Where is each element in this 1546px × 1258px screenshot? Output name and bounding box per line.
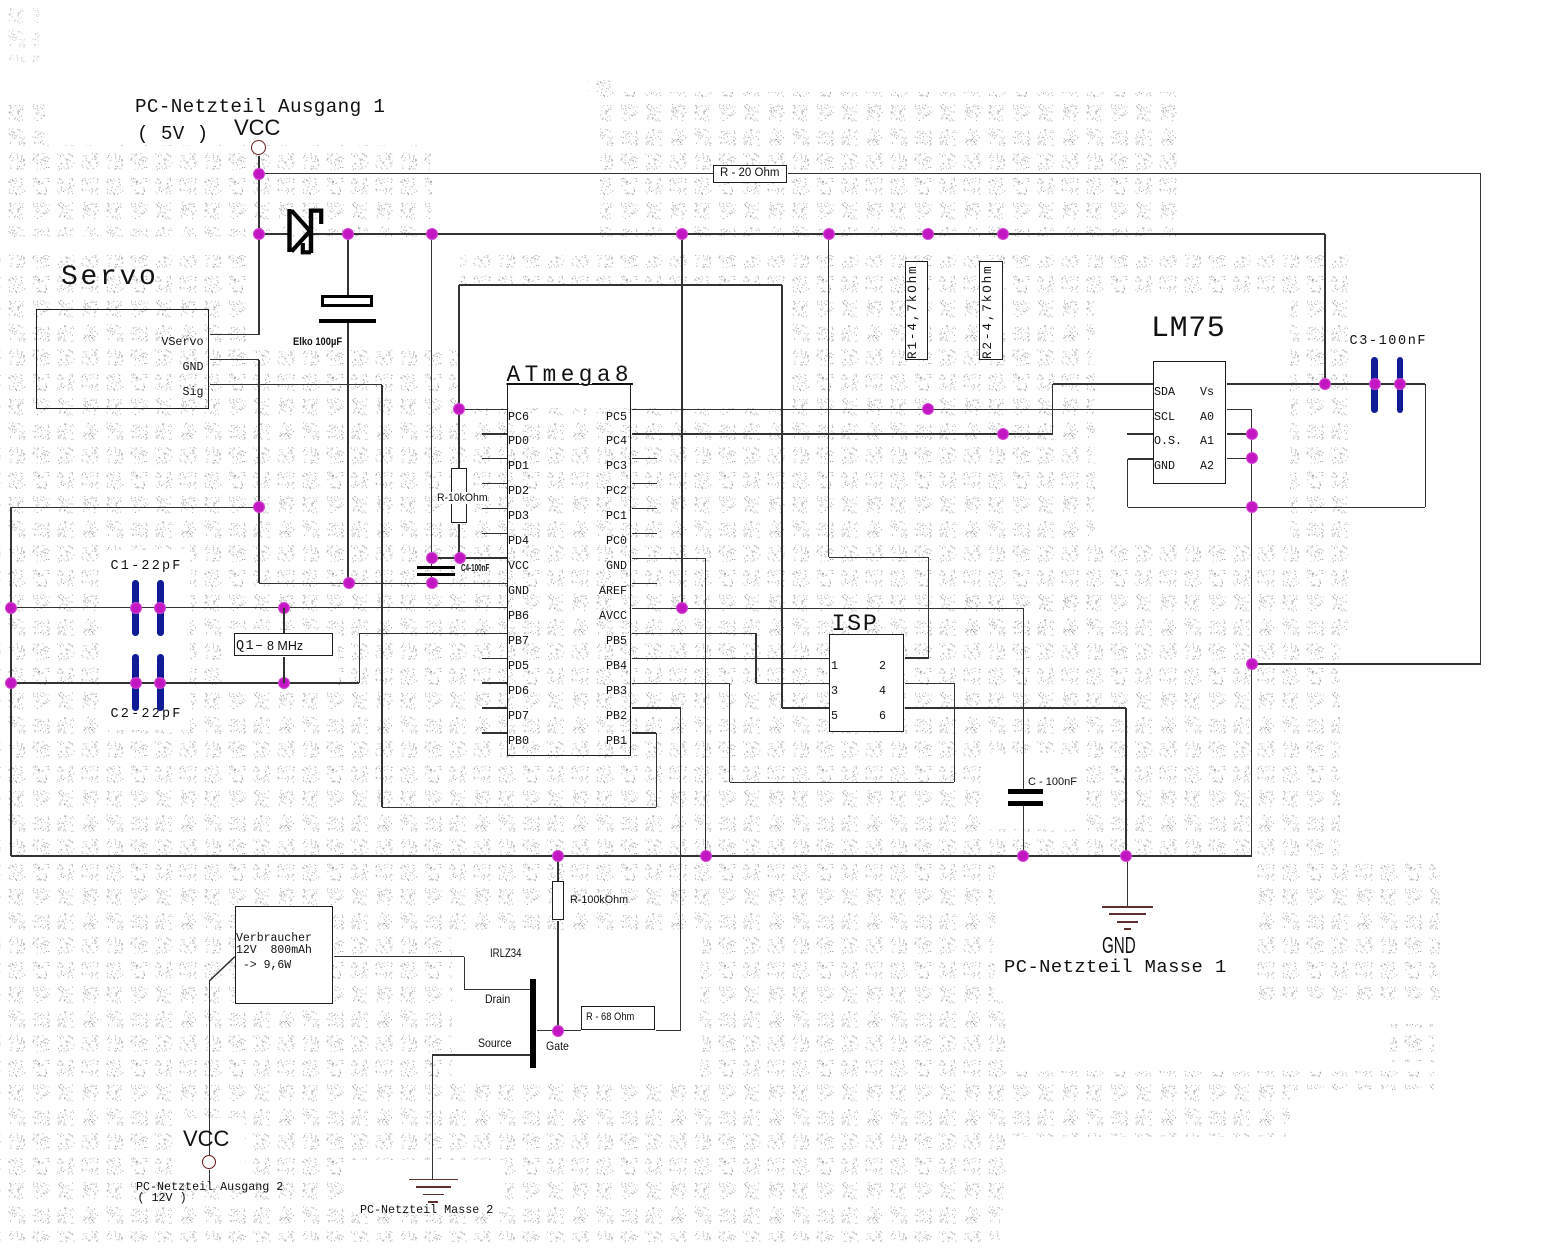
connector ISP bbox=[829, 634, 904, 733]
junction bbox=[426, 552, 438, 564]
junction bbox=[1319, 378, 1331, 390]
wire R-100k bottom lead bbox=[557, 921, 558, 1031]
ground GND PC-Netzteil Masse 2 bbox=[409, 1179, 458, 1181]
junction bbox=[454, 552, 466, 564]
resistor R-10kOhm bbox=[451, 468, 467, 523]
wire VCC to ISP pin2 top bbox=[829, 557, 929, 558]
pin stub ATmega8 right bbox=[632, 458, 658, 459]
junction bbox=[1017, 850, 1029, 862]
capacitor C-100nF bbox=[1008, 789, 1042, 794]
pin stub ATmega8 left bbox=[482, 707, 507, 708]
junction bbox=[154, 677, 166, 689]
junction bbox=[130, 677, 142, 689]
wire VCC terminal drop bbox=[258, 156, 259, 335]
wire PB3 drop bbox=[729, 683, 730, 782]
wire left GND drop bbox=[10, 507, 11, 856]
junction bbox=[1120, 850, 1132, 862]
wire SDA PC4 run bbox=[632, 433, 1053, 434]
wire Elko top lead bbox=[347, 234, 348, 295]
junction bbox=[453, 403, 465, 415]
junction bbox=[700, 850, 712, 862]
wire R-68 to riser bbox=[656, 1030, 681, 1031]
wire ATmega GND drop bbox=[705, 558, 706, 856]
resistor R1 4,7kOhm bbox=[905, 261, 928, 360]
wire PB3 bbox=[632, 683, 730, 684]
pin stub ATmega8 right bbox=[632, 583, 658, 584]
wire RESET top run bbox=[459, 284, 782, 285]
wire R-100k top lead bbox=[557, 856, 558, 881]
wire MOSI riser bbox=[954, 683, 955, 782]
pin stub ATmega8 left bbox=[482, 682, 507, 683]
resistor R2 4,7kOhm bbox=[979, 261, 1004, 360]
wire ISP pin4 lead bbox=[905, 683, 955, 684]
junction bbox=[278, 677, 290, 689]
pin stub ATmega8 left bbox=[482, 483, 507, 484]
pin stub ATmega8 left bbox=[482, 458, 507, 459]
wire AVCC row bbox=[632, 608, 1024, 609]
wire source drop to GND2 bbox=[432, 1055, 433, 1179]
junction bbox=[130, 602, 142, 614]
pin stub ATmega8 left bbox=[482, 533, 507, 534]
ground GND PC-Netzteil Masse 1 bbox=[1102, 906, 1153, 908]
wire Sig bottom run bbox=[382, 807, 656, 808]
wire ISP pin5 lead bbox=[782, 707, 830, 708]
junction bbox=[426, 577, 438, 589]
junction bbox=[997, 428, 1009, 440]
wire MOSI low run bbox=[730, 782, 955, 783]
wire R-10k top lead bbox=[458, 409, 459, 468]
wire PB4 to ISP pin1 bbox=[632, 658, 830, 659]
junction bbox=[1246, 501, 1258, 513]
wire VCC to ISP pin2 run bbox=[828, 234, 829, 557]
wire LM75 A2 lead bbox=[1227, 458, 1252, 459]
wire Vs C3 row bbox=[1227, 383, 1425, 384]
resistor R-100kOhm bbox=[552, 881, 564, 921]
crystal Q1 8MHz bbox=[234, 633, 333, 656]
junction bbox=[253, 501, 265, 513]
wire main GND bus bbox=[11, 855, 1252, 856]
wire source bbox=[432, 1054, 530, 1055]
wire ATmega GND right bbox=[632, 558, 706, 559]
wire VServo bbox=[210, 334, 259, 335]
junction bbox=[278, 602, 290, 614]
pin stub ATmega8 right bbox=[632, 483, 658, 484]
wire PB2 drop to R-68 bbox=[680, 708, 681, 1031]
wire Servo GND bbox=[210, 359, 259, 360]
capacitor C4-100nF bbox=[417, 566, 455, 570]
pin stub ATmega8 left bbox=[482, 508, 507, 509]
wire ISP pin3 lead bbox=[756, 683, 830, 684]
wire Servo GND drop bbox=[258, 360, 259, 584]
wire PB1 bbox=[632, 732, 657, 733]
IC U2 LM75 bbox=[1153, 361, 1226, 485]
wire VCC2 riser bbox=[209, 981, 210, 1155]
resistor R-68 Ohm bbox=[581, 1006, 655, 1030]
wire GND link row bbox=[11, 507, 259, 508]
junction bbox=[154, 602, 166, 614]
wire ISP pin6 drop bbox=[1125, 708, 1126, 856]
wire crystal bottom stub bbox=[283, 657, 284, 683]
transistor Q2 IRLZ34 bbox=[530, 979, 537, 1068]
wire RESET drop to ISP bbox=[781, 285, 782, 708]
wire crystal bottom row bbox=[11, 682, 359, 683]
wire ISP pin2 drop bbox=[928, 557, 929, 658]
wire PC6 bbox=[459, 409, 507, 410]
wire C3 return riser bbox=[1425, 384, 1426, 507]
wire LM75 GND run bbox=[1128, 507, 1426, 508]
wire Sig drop bbox=[381, 385, 382, 808]
connector Servo bbox=[36, 309, 209, 409]
wire diode anode feed bbox=[259, 233, 289, 234]
junction bbox=[676, 228, 688, 240]
wire drain jog bbox=[464, 957, 465, 990]
resistor R-20 Ohm bbox=[713, 165, 788, 184]
wire ATmega GND row bbox=[259, 583, 507, 584]
wire C-100nF bottom lead bbox=[1023, 806, 1024, 856]
wire R-20 to right edge bbox=[788, 173, 1481, 174]
junction bbox=[922, 403, 934, 415]
wire LM75 GND jog bbox=[1127, 459, 1128, 507]
wire C4 bottom stub bbox=[431, 576, 432, 583]
wire VCC2 terminal stub bbox=[209, 1170, 210, 1184]
wire PB5 jog bbox=[755, 633, 756, 683]
junction bbox=[823, 228, 835, 240]
wire AVCC riser to rail bbox=[681, 234, 682, 609]
wire LM75 GND lead bbox=[1128, 458, 1153, 459]
wire SDA into LM75 bbox=[1053, 383, 1153, 384]
wire O.S. stub bbox=[1127, 433, 1153, 434]
pin stub ATmega8 left bbox=[482, 658, 507, 659]
wire Sig bbox=[210, 384, 382, 385]
capacitor C2-22pF bbox=[111, 707, 183, 723]
wire GND1 stub bbox=[1127, 856, 1128, 906]
power VCC terminal PC-Netzteil Ausgang 2 12V bbox=[202, 1155, 216, 1169]
junction bbox=[253, 168, 265, 180]
junction bbox=[1369, 378, 1381, 390]
capacitor C1-22pF bbox=[111, 559, 183, 575]
junction bbox=[552, 1025, 564, 1037]
pin stub ATmega8 left bbox=[482, 433, 507, 434]
junction bbox=[997, 228, 1009, 240]
junction bbox=[1394, 378, 1406, 390]
junction bbox=[676, 602, 688, 614]
wire Sig riser to PB1 bbox=[656, 733, 657, 807]
IC U1 ATmega8 bbox=[507, 384, 631, 756]
junction bbox=[253, 228, 265, 240]
wire ISP pin2 lead bbox=[905, 657, 929, 658]
pin stub ATmega8 right bbox=[632, 508, 658, 509]
wire VCC feed drop bbox=[431, 234, 432, 566]
wire 5V rail after diode bbox=[313, 233, 1325, 234]
wire RESET riser bbox=[458, 285, 459, 409]
diode D1 Schottky bbox=[284, 204, 328, 256]
wire PB7 bbox=[359, 633, 507, 634]
wire LM75 A0 lead bbox=[1227, 409, 1252, 410]
wire ISP pin6 lead bbox=[905, 707, 1126, 708]
wire gate to R-68 bbox=[537, 1030, 582, 1031]
wire PB7 drop bbox=[359, 633, 360, 683]
wire SDA jog bbox=[1052, 384, 1053, 434]
wire drain bbox=[464, 989, 530, 990]
load Verbraucher 12V 800mAh bbox=[235, 906, 333, 1004]
wire Elko bottom lead bbox=[347, 323, 348, 583]
pin stub ATmega8 left bbox=[482, 732, 507, 733]
junction bbox=[5, 677, 17, 689]
wire LM75 A1 lead bbox=[1227, 433, 1252, 434]
wire crystal top stub bbox=[283, 608, 284, 633]
junction bbox=[1246, 452, 1258, 464]
wire ATmega VCC row bbox=[432, 557, 508, 558]
junction bbox=[5, 602, 17, 614]
capacitor C3-100nF bbox=[1350, 334, 1428, 350]
power VCC terminal PC-Netzteil Ausgang 1 5V bbox=[251, 140, 266, 155]
junction bbox=[342, 228, 354, 240]
junction bbox=[1246, 428, 1258, 440]
wire A-pins GND drop bbox=[1251, 409, 1252, 856]
wire PB5 bbox=[632, 633, 756, 634]
junction bbox=[426, 228, 438, 240]
junction bbox=[1246, 658, 1258, 670]
wire right edge drop bbox=[1480, 174, 1481, 665]
wire VCC rail to R-20 bbox=[259, 173, 713, 174]
junction bbox=[343, 577, 355, 589]
wire return to GND node bbox=[1252, 663, 1481, 664]
wire PB2 bbox=[632, 707, 681, 708]
junction bbox=[552, 850, 564, 862]
wire AVCC to C-100nF drop bbox=[1023, 608, 1024, 789]
wire R-10k bottom lead bbox=[458, 524, 459, 558]
pin stub ATmega8 right bbox=[632, 533, 658, 534]
junction bbox=[922, 228, 934, 240]
wire SCL PC5 to LM75 bbox=[632, 409, 1153, 410]
wire Vs riser from rail bbox=[1324, 234, 1325, 384]
wire Verbraucher out bbox=[334, 956, 465, 957]
capacitor Elko 100uF bbox=[321, 295, 373, 307]
wire crystal top row PB6 bbox=[11, 607, 507, 608]
wire VCC2 diagonal bbox=[205, 952, 241, 986]
